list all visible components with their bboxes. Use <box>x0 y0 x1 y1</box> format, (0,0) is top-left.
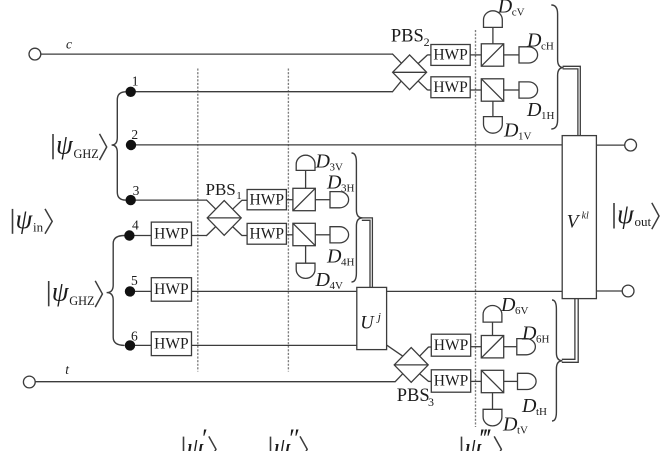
wire HWP to cube 1 <box>470 89 481 91</box>
svg-text:D: D <box>503 120 519 142</box>
HWP after PBS1 bottom <box>247 223 286 244</box>
wire 6 diagonal U box to PBS3 <box>387 345 403 356</box>
svg-text:5: 5 <box>131 273 138 288</box>
wire PBS3 top output to HWP <box>428 346 431 348</box>
PBS1 polarizing beam splitter <box>207 201 241 236</box>
wire HWP to cube t <box>471 380 482 382</box>
svg-text:GHZ: GHZ <box>69 294 94 308</box>
classical channel 34 to U outer <box>362 218 373 288</box>
analysis cube mode 1 <box>481 79 503 101</box>
svg-text:c: c <box>66 36 72 51</box>
dashed line psi-double-prime <box>287 69 289 372</box>
classical channel 6t to V outer <box>562 299 578 363</box>
wire 6 horizontal into U box <box>130 344 387 346</box>
svg-text:HWP: HWP <box>433 47 467 64</box>
wire V box to output terminal bottom <box>596 290 622 292</box>
HWP after PBS3 top <box>431 334 470 356</box>
svg-text:HWP: HWP <box>250 225 284 242</box>
label DtH <box>521 395 547 418</box>
unitary box U^j <box>357 287 387 349</box>
terminal input c <box>29 48 41 60</box>
wire cube 1 to detector D1H <box>504 89 519 91</box>
svg-text:″: ″ <box>288 424 300 451</box>
PBS2 polarizing beam splitter <box>393 55 427 90</box>
HWP on mode 5 <box>151 278 191 302</box>
wire c horizontal <box>41 53 393 55</box>
HWP after PBS1 top <box>247 190 286 210</box>
unitary box V^kl <box>562 136 596 299</box>
wire cube t to detector DtV stem <box>492 393 494 410</box>
label DcH <box>526 29 554 52</box>
svg-text:GHZ: GHZ <box>74 147 99 161</box>
HWP after PBS3 bottom <box>431 370 470 392</box>
svg-text:ψ: ψ <box>617 199 635 229</box>
svg-text:cV: cV <box>512 7 525 19</box>
svg-text:2: 2 <box>424 35 430 49</box>
wire PBS2 top output to HWP <box>427 54 431 56</box>
wire HWP to cube c <box>470 54 481 56</box>
label psi-double-prime ket <box>271 424 308 451</box>
label psi-prime ket <box>184 424 217 451</box>
svg-text:3: 3 <box>133 183 140 198</box>
label psi_GHZ ket top <box>53 130 107 162</box>
svg-text:1V: 1V <box>518 131 532 143</box>
wire PBS1 top output diagonal <box>233 200 242 209</box>
wire 5 horizontal through U box into V box <box>130 290 563 292</box>
svg-text:PBS: PBS <box>391 27 424 47</box>
analysis cube mode 4 <box>293 223 315 245</box>
classical channel c1 to V outer <box>563 66 581 135</box>
wire PBS3 bottom output to HWP <box>428 380 431 382</box>
label PBS2 <box>391 27 430 50</box>
svg-text:D: D <box>521 322 537 344</box>
HWP on mode 4 <box>151 222 191 246</box>
wire cube c to detector DcH <box>504 54 519 56</box>
wire PBS2 bottom output diagonal <box>418 81 427 90</box>
svg-text:D: D <box>526 99 542 121</box>
detector DtH <box>518 373 537 389</box>
detector D6V <box>483 306 502 323</box>
label D1V <box>503 120 532 143</box>
svg-text:HWP: HWP <box>154 281 188 298</box>
node 3 <box>126 195 136 205</box>
label DtV <box>502 414 528 437</box>
wire c diagonal into PBS2 <box>392 54 401 64</box>
svg-text:1: 1 <box>132 73 139 88</box>
analysis cube mode 3 <box>293 188 315 210</box>
analysis cube mode 6 <box>481 336 503 358</box>
PBS3 polarizing beam splitter <box>394 348 428 383</box>
detector D3H <box>330 192 349 208</box>
svg-text:D: D <box>315 269 331 291</box>
brace measurement 34 <box>352 153 363 282</box>
svg-text:D: D <box>326 246 342 268</box>
svg-text:HWP: HWP <box>250 191 284 208</box>
node 1 <box>126 87 136 97</box>
label D3H <box>326 171 355 194</box>
svg-text:ψ: ψ <box>16 204 34 234</box>
svg-text:4: 4 <box>132 218 139 233</box>
wire cube 1 to detector D1V stem <box>492 101 494 116</box>
terminal input t <box>23 376 35 388</box>
label psi-triple-prime ket <box>462 424 502 451</box>
node 6 <box>125 340 135 350</box>
wire cube c to detector DcV stem <box>492 27 494 43</box>
wire 2 horizontal into V box <box>131 144 563 146</box>
svg-text:2: 2 <box>131 127 138 142</box>
detector D1H <box>519 82 538 98</box>
wire PBS3 bottom output diagonal <box>420 374 429 382</box>
svg-text:3H: 3H <box>341 182 355 194</box>
analysis cube mode c <box>481 44 503 66</box>
wire cube 6 to detector D6V stem <box>492 322 494 335</box>
svg-text:tV: tV <box>517 425 528 437</box>
terminal output top <box>625 139 637 151</box>
classical channel 34 to U inner <box>362 220 370 287</box>
svg-text:D: D <box>326 171 342 193</box>
detector DcV <box>484 11 503 28</box>
classical channel c1 to V inner <box>563 69 578 136</box>
label D3V <box>315 151 344 174</box>
classical channel 6t to V inner <box>562 299 575 360</box>
label psi_in ket <box>13 204 53 234</box>
brace GHZ group 456 <box>107 236 125 346</box>
wire HWP to cube 6 <box>471 346 482 348</box>
wire cube t to detector DtH <box>504 380 518 382</box>
wire HWP to cube 3 <box>286 199 293 201</box>
svg-text:6V: 6V <box>515 305 529 317</box>
wire PBS3 top output diagonal <box>420 347 429 356</box>
svg-text:HWP: HWP <box>154 225 188 242</box>
brace measurement 6t <box>552 300 562 421</box>
detector DtV <box>483 409 502 426</box>
wire PBS2 top output diagonal <box>418 55 427 64</box>
svg-text:out: out <box>635 214 652 229</box>
terminal output bottom <box>622 285 634 297</box>
label DcV <box>497 0 525 19</box>
svg-text:1: 1 <box>236 190 242 202</box>
svg-text:cH: cH <box>541 40 554 52</box>
wire 3 horizontal <box>131 199 207 201</box>
label psi_GHZ ket bottom <box>49 277 103 309</box>
svg-text:D: D <box>521 395 537 417</box>
svg-text:ψ: ψ <box>56 130 74 160</box>
wire cube 4 to detector D4V stem <box>305 246 307 264</box>
label D6H <box>521 322 550 345</box>
svg-text:ψ: ψ <box>52 277 70 307</box>
svg-text:PBS: PBS <box>206 180 236 199</box>
wire V box to output terminal top <box>596 144 624 146</box>
node 5 <box>125 286 135 296</box>
svg-text:PBS: PBS <box>397 386 430 406</box>
svg-text:HWP: HWP <box>154 335 188 352</box>
svg-text:tH: tH <box>536 406 547 418</box>
brace measurement c1 <box>551 5 563 129</box>
HWP after PBS2 bottom <box>431 77 470 98</box>
svg-text:D: D <box>526 29 542 51</box>
wire cube 4 to detector D4H <box>315 234 330 236</box>
svg-text:′: ′ <box>201 424 207 451</box>
svg-text:U: U <box>360 313 375 333</box>
label D4H <box>326 246 355 269</box>
wire 1 diagonal into PBS2 <box>392 81 401 92</box>
svg-text:D: D <box>502 414 518 436</box>
wire cube 3 to detector D3V stem <box>305 171 307 189</box>
wire PBS1 bottom output diagonal <box>233 227 242 236</box>
wire cube 3 to detector D3H <box>315 199 330 201</box>
wire 4 diagonal into PBS1 <box>206 227 216 236</box>
svg-text:1H: 1H <box>541 110 555 122</box>
node 4 <box>124 230 134 240</box>
analysis cube mode t <box>481 370 503 392</box>
wire 4 horizontal <box>129 235 206 237</box>
svg-text:6: 6 <box>131 328 138 343</box>
detector D3V <box>296 155 315 170</box>
svg-text:4H: 4H <box>341 257 355 269</box>
svg-text:D: D <box>500 294 516 316</box>
svg-text:in: in <box>33 220 44 235</box>
HWP on mode 6 <box>151 332 191 356</box>
wire 1 horizontal <box>131 91 393 93</box>
detector D1V <box>484 117 503 134</box>
svg-text:HWP: HWP <box>434 373 468 390</box>
svg-text:D: D <box>315 151 331 173</box>
brace GHZ group 123 <box>112 92 126 200</box>
label D4V <box>315 269 344 292</box>
dashed line psi-prime <box>197 69 199 372</box>
wire 3 diagonal into PBS1 <box>206 200 216 210</box>
wire PBS1 top output to HWP <box>242 199 248 201</box>
label D6V <box>500 294 529 317</box>
detector D6H <box>517 339 536 355</box>
svg-text:HWP: HWP <box>433 79 467 96</box>
wire t diagonal into PBS3 <box>395 374 403 382</box>
dashed line psi-triple-prime <box>475 30 477 427</box>
wire t horizontal <box>35 381 395 383</box>
svg-text:HWP: HWP <box>434 337 468 354</box>
detector D4H <box>330 227 349 243</box>
svg-text:6H: 6H <box>536 333 550 345</box>
svg-text:4V: 4V <box>330 280 344 292</box>
svg-text:D: D <box>497 0 513 18</box>
label psi_out ket <box>614 199 659 229</box>
detector DcH <box>519 47 538 63</box>
HWP after PBS2 top <box>431 45 470 66</box>
svg-text:kl: kl <box>582 211 589 222</box>
svg-text:3: 3 <box>428 395 434 409</box>
detector D4V <box>296 263 315 278</box>
label PBS3 <box>397 386 434 409</box>
label D1H <box>526 99 555 122</box>
wire PBS1 bottom output to HWP <box>242 235 248 237</box>
wire HWP to cube 4 <box>286 234 293 236</box>
label PBS1 <box>206 180 242 202</box>
wire PBS2 bottom output to HWP <box>427 89 431 91</box>
wire cube 6 to detector D6H <box>504 346 517 348</box>
node 2 <box>126 140 136 150</box>
